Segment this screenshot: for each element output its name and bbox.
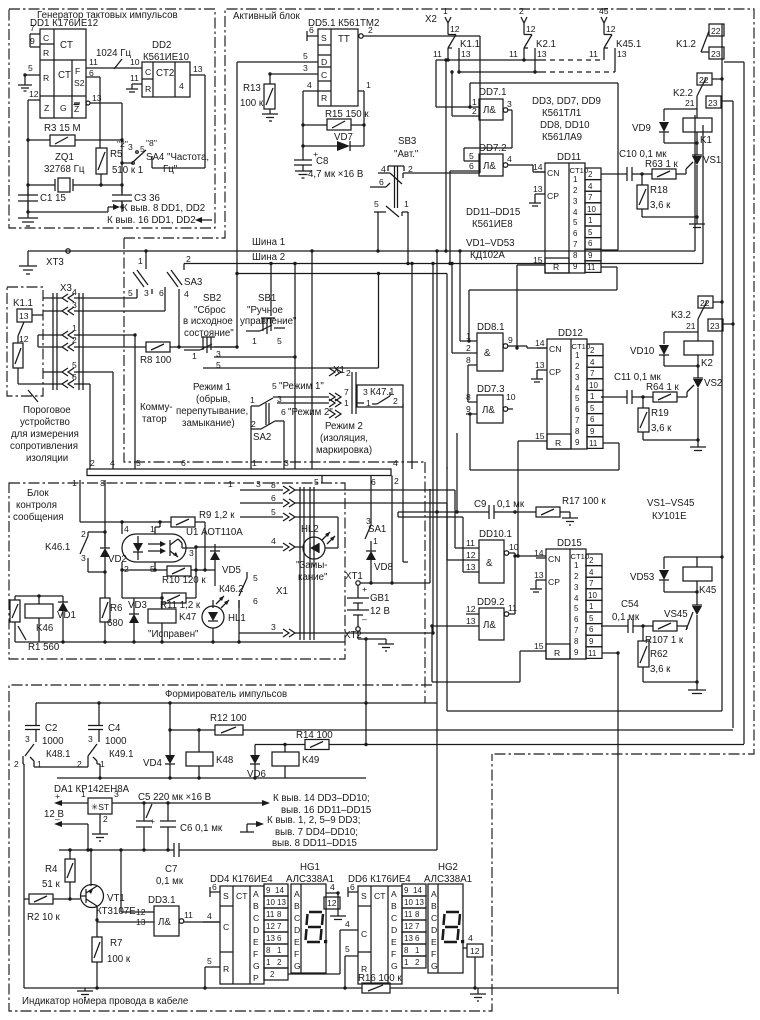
svg-text:VD8: VD8	[374, 562, 393, 573]
diode VD9	[632, 109, 697, 143]
svg-text:Л&: Л&	[483, 105, 496, 116]
svg-text:"2": "2"	[117, 139, 128, 149]
svg-text:6: 6	[159, 288, 164, 298]
resistor R16 100k	[358, 973, 402, 993]
svg-text:выв. 8 DD11–DD15: выв. 8 DD11–DD15	[272, 838, 357, 849]
svg-text:R4: R4	[45, 864, 58, 875]
svg-text:К561ЛА9: К561ЛА9	[542, 132, 582, 143]
svg-text:для измерения: для измерения	[11, 429, 79, 440]
svg-text:23: 23	[711, 49, 721, 59]
resistor R17 100k	[536, 496, 606, 525]
svg-text:DD1 К176ИЕ12: DD1 К176ИЕ12	[30, 18, 98, 29]
svg-text:&: &	[484, 348, 491, 359]
relay contact K1.2 with pin frames 22 23	[676, 24, 724, 59]
svg-text:Шина 1: Шина 1	[252, 237, 285, 248]
svg-text:6: 6	[181, 458, 186, 468]
button SB2 Сброс	[183, 293, 297, 370]
svg-text:1000: 1000	[105, 736, 127, 747]
wire VD8 node to frame	[371, 489, 430, 585]
diode VD10	[630, 332, 698, 366]
diode VD53	[630, 557, 697, 592]
svg-text:F: F	[253, 949, 258, 959]
svg-text:C54: C54	[621, 599, 639, 610]
svg-text:1: 1	[138, 256, 143, 266]
svg-text:SB3: SB3	[398, 136, 416, 147]
svg-text:12 В: 12 В	[44, 809, 64, 820]
svg-text:8: 8	[415, 910, 420, 919]
svg-text:9: 9	[404, 886, 409, 895]
svg-text:13: 13	[193, 64, 203, 74]
svg-text:13: 13	[461, 49, 471, 59]
diode VD2	[100, 546, 127, 572]
block border: Индикатор номера провода в кабеле	[22, 996, 188, 1007]
svg-text:Комму-: Комму-	[140, 402, 173, 413]
svg-text:VD4: VD4	[143, 758, 162, 769]
svg-text:11: 11	[508, 603, 517, 613]
pin 11 DD2 + ground	[126, 73, 142, 92]
svg-text:1: 1	[266, 958, 271, 967]
svg-text:6: 6	[415, 934, 420, 943]
svg-text:R8 100: R8 100	[140, 355, 172, 366]
threshold device box K1.1	[7, 287, 43, 402]
pin 3 DD5.1 wire	[268, 63, 318, 76]
svg-text:DD6 К176ИЕ4: DD6 К176ИЕ4	[348, 874, 411, 885]
svg-text:4,7 мк ×16 В: 4,7 мк ×16 В	[308, 169, 363, 180]
svg-text:2: 2	[103, 814, 108, 824]
svg-text:C: C	[145, 67, 151, 77]
svg-text:5: 5	[136, 458, 141, 468]
svg-text:татор: татор	[142, 414, 167, 425]
svg-text:9: 9	[30, 36, 35, 46]
diode VD3	[122, 570, 162, 642]
svg-text:CT: CT	[60, 40, 73, 51]
resistor R62 3,6k	[638, 626, 699, 684]
svg-text:GB1: GB1	[370, 593, 389, 604]
svg-text:6: 6	[379, 177, 384, 187]
svg-text:8: 8	[266, 946, 271, 955]
svg-text:2: 2	[466, 343, 471, 353]
terminal XT2	[344, 627, 386, 641]
svg-text:Пороговое: Пороговое	[23, 405, 71, 416]
wire bottom rail + arrow К выв. 8 DD1, DD2	[26, 201, 205, 214]
capacitor C54 0,1uF	[601, 599, 645, 633]
svg-text:R12 100: R12 100	[210, 713, 247, 724]
svg-text:выв. 7 DD4–DD10;: выв. 7 DD4–DD10;	[275, 827, 358, 838]
svg-text:12: 12	[29, 89, 39, 99]
svg-text:R1 560: R1 560	[28, 642, 60, 653]
svg-text:К561ТЛ1: К561ТЛ1	[542, 108, 581, 119]
capacitor C2 1000	[25, 703, 64, 747]
svg-text:12: 12	[266, 922, 275, 931]
svg-text:К561ИЕ10: К561ИЕ10	[143, 52, 190, 63]
svg-text:C: C	[43, 33, 49, 43]
svg-text:12: 12	[606, 24, 616, 34]
svg-text:A: A	[431, 889, 437, 899]
svg-text:4: 4	[207, 911, 212, 921]
svg-text:3,6 к: 3,6 к	[651, 423, 672, 434]
diode VD6	[247, 745, 266, 781]
text DD11-DD15	[466, 207, 520, 230]
resistor R15 150k + feedback loop	[301, 109, 369, 130]
svg-text:11: 11	[433, 49, 442, 59]
svg-text:7: 7	[30, 23, 35, 33]
svg-text:0,1 мк: 0,1 мк	[156, 876, 184, 887]
capacitor C5 220uF	[136, 792, 211, 850]
svg-text:R: R	[43, 73, 49, 83]
wire bus bar pin1 down	[79, 480, 81, 522]
ground VS1 branch	[689, 217, 705, 228]
svg-text:2: 2	[90, 458, 95, 468]
wire DD12 out to C11	[601, 396, 603, 398]
svg-text:S: S	[361, 891, 367, 901]
wire verticals middle columns	[269, 249, 447, 469]
svg-text:3: 3	[128, 142, 133, 152]
svg-text:АЛС338А1: АЛС338А1	[286, 874, 334, 885]
gate DD7.1	[436, 87, 512, 161]
svg-text:2: 2	[346, 368, 351, 378]
svg-text:E: E	[391, 937, 397, 947]
capacitor C4 1000	[88, 701, 127, 747]
wire DD11 R loop	[515, 265, 535, 350]
svg-text:5: 5	[253, 573, 258, 583]
svg-text:K45: K45	[699, 585, 716, 596]
svg-text:A: A	[294, 889, 300, 899]
svg-text:C: C	[431, 913, 437, 923]
svg-text:+: +	[313, 149, 318, 159]
capacitor C8 4,7uF	[294, 144, 363, 180]
svg-text:4: 4	[179, 81, 184, 91]
pin 6 DD1 wire down	[86, 68, 100, 148]
svg-text:3: 3	[81, 553, 86, 563]
svg-text:DD10.1: DD10.1	[479, 529, 512, 540]
svg-text:Л&: Л&	[483, 161, 496, 172]
wire rail 13-pins y72	[450, 70, 615, 116]
svg-text:D: D	[321, 57, 327, 67]
svg-text:SA2: SA2	[253, 432, 271, 443]
svg-text:7: 7	[344, 387, 349, 397]
svg-text:Z: Z	[44, 103, 49, 113]
svg-text:R16 100 к: R16 100 к	[358, 973, 402, 984]
svg-text:10: 10	[266, 898, 275, 907]
wire K45 feed from bus	[697, 555, 724, 558]
svg-text:✳ST: ✳ST	[91, 802, 110, 812]
svg-text:K46.1: K46.1	[45, 542, 70, 553]
wire annotation К выв. 14	[262, 793, 371, 816]
svg-text:3: 3	[100, 478, 105, 488]
capacitor C1 15	[18, 185, 66, 218]
svg-text:X3: X3	[60, 283, 72, 294]
crystal ZQ1 32768 Hz	[26, 152, 123, 192]
wire C9 R17 line	[398, 499, 536, 519]
svg-text:4: 4	[271, 536, 276, 546]
svg-text:VD3: VD3	[128, 600, 147, 611]
svg-text:HL1: HL1	[228, 613, 246, 624]
svg-text:D: D	[431, 925, 437, 935]
svg-text:P: P	[253, 973, 259, 983]
svg-text:12: 12	[327, 898, 337, 908]
svg-text:1: 1	[192, 351, 197, 361]
svg-text:DD15: DD15	[557, 538, 582, 549]
svg-text:DD12: DD12	[558, 328, 583, 339]
svg-text:CT: CT	[58, 70, 71, 81]
svg-text:2: 2	[519, 6, 524, 16]
svg-text:13: 13	[266, 934, 275, 943]
connector X3 pin 2	[43, 335, 146, 351]
svg-text:+: +	[362, 584, 367, 594]
svg-text:6: 6	[350, 882, 355, 892]
relay coil K1	[683, 109, 712, 155]
IC DD1 K176IE12	[30, 18, 98, 118]
svg-text:4: 4	[110, 458, 115, 468]
svg-text:R5: R5	[110, 149, 122, 160]
svg-text:C: C	[391, 913, 397, 923]
svg-text:6: 6	[371, 477, 376, 487]
DD6 pin ladder	[402, 884, 426, 968]
relay coil K45	[683, 557, 716, 605]
svg-text:0,1 мк: 0,1 мк	[612, 612, 640, 623]
svg-text:F: F	[391, 949, 396, 959]
svg-text:13: 13	[537, 49, 547, 59]
svg-text:DD3, DD7, DD9: DD3, DD7, DD9	[532, 96, 601, 107]
resistor R9 1,2k	[80, 510, 235, 572]
svg-text:G: G	[253, 961, 260, 971]
svg-text:R19: R19	[651, 408, 669, 419]
wire SB3 pin5 to bus	[376, 212, 409, 265]
relay contact K48.1	[14, 734, 88, 899]
svg-text:1: 1	[366, 398, 371, 408]
svg-text:1: 1	[72, 478, 77, 488]
wire W1 vertical 437	[436, 251, 438, 850]
svg-text:23: 23	[708, 98, 718, 108]
thyristor VS1	[686, 155, 721, 217]
battery GB1 12V	[347, 593, 390, 627]
svg-text:1: 1	[366, 80, 371, 90]
svg-text:DD7.2: DD7.2	[479, 143, 506, 154]
resistor R5 510k	[96, 148, 143, 187]
node XT3 terminal	[19, 249, 70, 274]
svg-text:3,6 к: 3,6 к	[650, 200, 671, 211]
svg-text:Режим 2: Режим 2	[325, 421, 363, 432]
svg-text:12: 12	[466, 550, 476, 560]
svg-text:перепутывание,: перепутывание,	[176, 406, 248, 417]
svg-text:Активный блок: Активный блок	[233, 11, 300, 22]
svg-text:5: 5	[277, 336, 282, 346]
svg-text:CT: CT	[236, 891, 248, 901]
wire K46.2 bottom	[238, 608, 240, 642]
svg-text:100 к: 100 к	[240, 98, 264, 109]
svg-text:5: 5	[207, 956, 212, 966]
svg-text:1: 1	[344, 398, 349, 408]
connector X3 pin 1	[43, 323, 137, 469]
svg-text:C: C	[223, 922, 229, 932]
relay coil K2	[684, 332, 713, 378]
svg-text:G: G	[294, 961, 301, 971]
svg-text:XT1: XT1	[345, 571, 363, 582]
svg-text:DD4 К176ИЕ4: DD4 К176ИЕ4	[210, 874, 273, 885]
relay contact K3.2	[671, 296, 735, 332]
wire former top rail	[36, 701, 437, 704]
svg-text:–: –	[362, 614, 367, 624]
svg-text:изоляции: изоляции	[26, 453, 68, 464]
svg-text:8: 8	[404, 946, 409, 955]
svg-text:10: 10	[509, 542, 519, 552]
gate DD9.2	[430, 554, 517, 640]
pin 6 DD5.1 stub	[307, 25, 318, 41]
svg-text:S: S	[321, 33, 327, 43]
svg-text:E: E	[253, 937, 259, 947]
display HG1 ALS338A1	[286, 862, 346, 973]
counter DD15	[530, 538, 602, 659]
svg-text:VD5: VD5	[222, 565, 241, 576]
text Коммутатор	[140, 402, 173, 425]
connector X1 row 3	[239, 622, 433, 637]
svg-text:2: 2	[77, 759, 82, 769]
wire vertical 433 to X1 row3	[431, 264, 434, 635]
svg-text:К47.1: К47.1	[370, 387, 395, 398]
svg-text:G: G	[391, 961, 398, 971]
svg-text:R17 100 к: R17 100 к	[562, 496, 606, 507]
svg-text:1: 1	[252, 336, 257, 346]
svg-text:10: 10	[130, 57, 140, 67]
svg-text:"8": "8"	[146, 138, 157, 148]
diode VD8	[366, 545, 393, 583]
svg-text:11: 11	[589, 49, 598, 59]
svg-text:SA3: SA3	[184, 277, 202, 288]
svg-text:Блок: Блок	[27, 488, 49, 499]
svg-text:X2: X2	[425, 14, 437, 25]
svg-text:К выв. 16 DD1, DD2: К выв. 16 DD1, DD2	[107, 215, 196, 226]
svg-text:1000: 1000	[42, 736, 64, 747]
svg-text:F: F	[431, 949, 436, 959]
wire indicator bottom rail	[24, 899, 618, 990]
resistor R63 1k	[642, 159, 686, 179]
svg-text:12: 12	[404, 922, 413, 931]
wire bus Шина 1	[28, 115, 695, 253]
svg-text:12: 12	[450, 24, 460, 34]
svg-text:5: 5	[345, 944, 350, 954]
svg-text:2: 2	[251, 419, 256, 429]
svg-text:E: E	[431, 937, 437, 947]
svg-text:SB1: SB1	[258, 293, 276, 304]
svg-text:K47: K47	[179, 612, 196, 623]
svg-text:1: 1	[404, 958, 409, 967]
button SB1 Ручное управление	[240, 293, 297, 346]
svg-text:К49.1: К49.1	[109, 749, 134, 760]
svg-text:VS2: VS2	[704, 378, 722, 389]
svg-text:3: 3	[114, 789, 119, 799]
svg-text:Режим 1: Режим 1	[193, 382, 231, 393]
svg-text:R: R	[145, 84, 151, 94]
svg-text:6: 6	[89, 68, 94, 78]
svg-text:DD3.1: DD3.1	[148, 895, 175, 906]
resistor R14 100	[255, 730, 744, 750]
svg-text:4: 4	[468, 933, 473, 943]
svg-text:АЛС338А1: АЛС338А1	[424, 874, 472, 885]
svg-text:R15 150 к: R15 150 к	[325, 109, 369, 120]
wire control block bottom rail	[15, 640, 345, 643]
svg-text:R6: R6	[110, 603, 122, 614]
optocoupler U1 AOT110A	[120, 520, 243, 574]
resistor R2 10k	[24, 894, 80, 923]
svg-text:VD9: VD9	[632, 123, 651, 134]
svg-text:11: 11	[266, 910, 275, 919]
pin 7 DD1	[30, 23, 40, 34]
connector X3 pin 5	[43, 360, 113, 469]
diode VD7	[303, 125, 364, 151]
svg-text:3: 3	[363, 387, 368, 397]
svg-text:2: 2	[14, 759, 19, 769]
capacitor C7 0,1uF	[156, 843, 184, 887]
connector X1 rails	[276, 487, 314, 640]
svg-text:"Сброс: "Сброс	[194, 305, 226, 316]
svg-text:DD11: DD11	[557, 152, 581, 163]
svg-text:A: A	[253, 889, 259, 899]
svg-text:DD11–DD15: DD11–DD15	[466, 207, 520, 218]
svg-text:11: 11	[130, 73, 139, 83]
svg-text:5: 5	[128, 288, 133, 298]
svg-text:VD2: VD2	[108, 554, 127, 565]
gate DD7.3	[466, 384, 516, 423]
svg-text:1024 Гц: 1024 Гц	[96, 48, 131, 59]
svg-text:C4: C4	[108, 723, 121, 734]
svg-text:К561ИЕ8: К561ИЕ8	[472, 219, 513, 230]
svg-text:–: –	[55, 814, 60, 824]
svg-text:КУ101Е: КУ101Е	[652, 511, 687, 522]
wire main minus rail y850	[59, 848, 437, 851]
text VD1-VD53	[466, 238, 514, 261]
svg-text:VT1: VT1	[107, 893, 125, 904]
ground right bottom	[470, 988, 486, 1001]
svg-text:6: 6	[281, 407, 286, 417]
svg-text:11: 11	[466, 538, 475, 548]
wire bus bar pin3 down	[104, 480, 106, 546]
svg-text:S2: S2	[74, 78, 85, 88]
switch SA4 "Частота, Гц"	[117, 138, 209, 175]
svg-text:9: 9	[508, 335, 513, 345]
svg-text:КД102А: КД102А	[470, 250, 505, 261]
svg-text:6: 6	[469, 161, 474, 171]
svg-text:R: R	[223, 964, 229, 974]
svg-text:B: B	[391, 901, 397, 911]
relay contact K2.2	[673, 73, 733, 728]
ground VS45 branch	[688, 682, 706, 694]
block border: Формирователь импульсов	[9, 685, 492, 1011]
svg-text:G: G	[431, 961, 438, 971]
capacitor C10 0,1uF	[610, 149, 667, 181]
wire DD15 out to C54	[601, 625, 602, 627]
switch SB3 "Авт."	[370, 136, 419, 217]
svg-text:1: 1	[228, 479, 233, 489]
svg-text:8: 8	[466, 355, 471, 365]
wire former lower rail	[57, 777, 366, 779]
svg-text:13: 13	[19, 311, 29, 321]
switch SA2	[250, 395, 284, 469]
pin 4 DD5.1	[303, 80, 318, 125]
svg-text:C: C	[294, 913, 300, 923]
terminal XT1	[345, 571, 373, 598]
connector X3 pin 6	[43, 372, 90, 469]
svg-text:2: 2	[270, 970, 275, 979]
gate DD8.1	[450, 249, 547, 402]
diode VD4	[143, 728, 175, 779]
svg-text:1: 1	[150, 524, 155, 534]
svg-text:B: B	[253, 901, 259, 911]
display HG2 ALS338A1	[424, 862, 483, 990]
svg-text:4: 4	[330, 882, 335, 892]
svg-text:100 к: 100 к	[107, 954, 131, 965]
svg-text:6: 6	[212, 882, 217, 892]
svg-text:10: 10	[506, 392, 516, 402]
